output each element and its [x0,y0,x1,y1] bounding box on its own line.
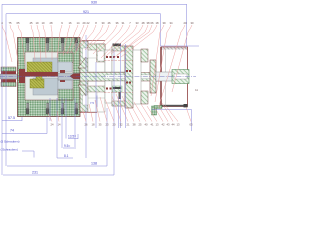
svg-text:21: 21 [127,123,130,127]
svg-text:24: 24 [51,123,54,127]
svg-text:03: 03 [190,123,193,127]
svg-text:23: 23 [106,123,109,127]
svg-text:13.5=: 13.5= [68,134,76,138]
svg-text:31: 31 [122,21,125,25]
svg-text:930: 930 [91,1,97,5]
svg-text:20: 20 [113,123,116,127]
svg-text:29: 29 [83,21,86,25]
svg-text:57.5: 57.5 [8,116,15,120]
svg-text:22: 22 [87,21,90,25]
svg-text:9.5=: 9.5= [64,144,70,148]
svg-text:48: 48 [142,21,145,25]
svg-text:13: 13 [156,123,159,127]
svg-text:38: 38 [133,123,136,127]
svg-text:41: 41 [151,123,154,127]
svg-text:20: 20 [184,21,187,25]
svg-text:35: 35 [99,123,102,127]
svg-text:18: 18 [156,21,159,25]
svg-text:10: 10 [42,21,45,25]
svg-text:26: 26 [85,123,88,127]
svg-text:138: 138 [91,162,97,166]
svg-text:14: 14 [77,21,80,25]
svg-text:8.1: 8.1 [64,154,69,158]
svg-text:18: 18 [92,123,95,127]
svg-text:45: 45 [30,21,33,25]
svg-text:11: 11 [195,88,198,92]
svg-text:13: 13 [177,123,180,127]
svg-text:65: 65 [17,21,20,25]
svg-text:43: 43 [167,123,170,127]
svg-text:231: 231 [32,171,38,175]
svg-text:7.5: 7.5 [90,101,94,105]
svg-text:46: 46 [108,21,111,25]
svg-text:(5 Schrauben): (5 Schrauben) [1,140,20,144]
svg-text:34: 34 [170,21,173,25]
svg-text:44: 44 [172,123,175,127]
svg-text:921: 921 [83,10,89,14]
svg-text:74: 74 [10,129,14,133]
svg-text:25: 25 [139,123,142,127]
svg-text:28: 28 [50,21,53,25]
svg-text:30: 30 [102,21,105,25]
svg-text:16: 16 [69,21,72,25]
svg-text:32: 32 [120,123,123,127]
svg-text:33: 33 [136,21,139,25]
svg-text:75: 75 [9,21,12,25]
svg-text:14: 14 [58,123,61,127]
svg-text:( Schrauben): ( Schrauben) [1,148,18,152]
svg-text:40: 40 [145,123,148,127]
svg-text:39: 39 [163,21,166,25]
svg-text:38: 38 [147,21,150,25]
svg-text:06: 06 [151,21,154,25]
svg-text:36: 36 [116,21,119,25]
svg-text:42: 42 [162,123,165,127]
svg-text:30: 30 [191,21,194,25]
svg-text:19: 19 [36,21,39,25]
